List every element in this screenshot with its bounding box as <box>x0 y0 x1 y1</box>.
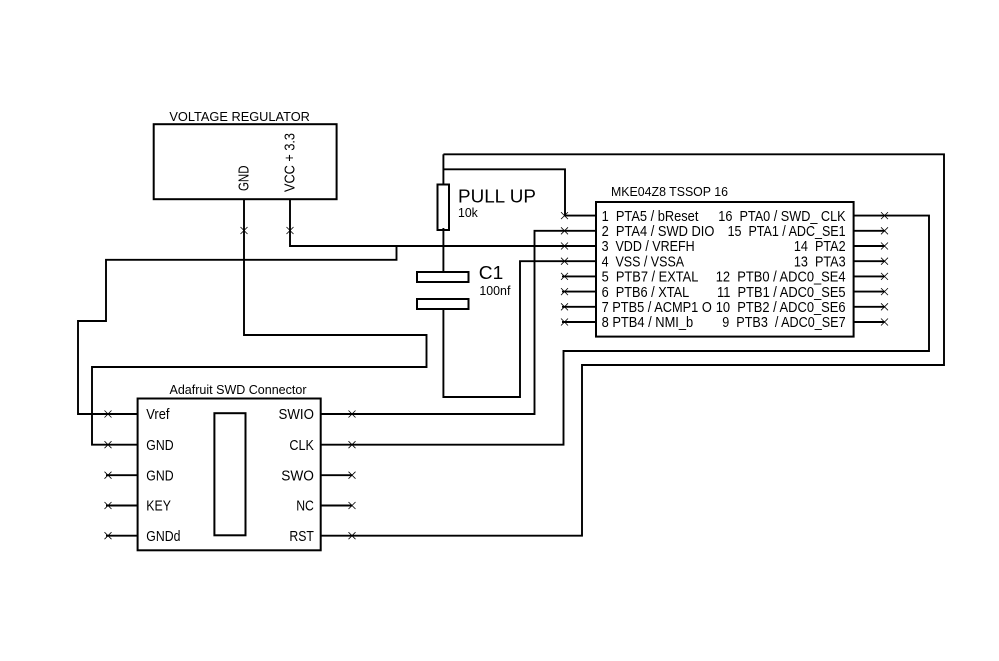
capacitor C1 top plate <box>417 272 469 282</box>
pin-end cross: MCU pin 14 <box>881 243 888 250</box>
pin-end cross: MCU pin 2 <box>561 227 568 234</box>
pin-end cross: MCU pin 4 <box>561 258 568 265</box>
svg-text:CLK: CLK <box>289 438 314 454</box>
svg-text:7 PTB5 / ACMP1 O: 7 PTB5 / ACMP1 O <box>602 300 712 316</box>
svg-text:12 PTB0 / ADC0_SE4: 12 PTB0 / ADC0_SE4 <box>716 270 846 286</box>
pin-end cross: regulator VCC <box>287 227 294 234</box>
wire: reset net, resistor top to upper rail <box>442 154 444 184</box>
pin-end cross: SWD RST <box>349 532 356 539</box>
pin-end cross: MCU pin 13 <box>881 258 888 265</box>
pin-end cross: MCU pin 3 <box>561 243 568 250</box>
wire: SWD SWO stub <box>321 474 352 476</box>
svg-text:4 VSS / VSSA: 4 VSS / VSSA <box>602 254 685 270</box>
pin-end cross: SWD GND pin 3 <box>105 472 112 479</box>
pin-end cross: MCU pin 7 <box>561 303 568 310</box>
svg-text:RST: RST <box>289 529 314 545</box>
SWD connector keying notch rectangle <box>214 413 245 535</box>
svg-text:16 PTA0 / SWD_ CLK: 16 PTA0 / SWD_ CLK <box>718 209 846 225</box>
pin-end cross: MCU pin 1 <box>561 212 568 219</box>
pin-end cross: MCU pin 5 <box>561 273 568 280</box>
wire: MCU pin 5 stub <box>562 275 596 277</box>
svg-text:5 PTB7 / EXTAL: 5 PTB7 / EXTAL <box>602 270 699 286</box>
wire: MCU pin 10 stub <box>854 306 885 308</box>
wire: MCU pin 15 stub <box>854 230 885 232</box>
wire: MCU pin 12 stub <box>854 275 885 277</box>
pin-end cross: SWD GND pin 2 <box>105 441 112 448</box>
svg-text:MKE04Z8 TSSOP 16: MKE04Z8 TSSOP 16 <box>611 184 728 199</box>
pin-end cross: MCU pin 11 <box>881 288 888 295</box>
SWD connector J1 box <box>138 399 321 551</box>
svg-text:NC: NC <box>296 499 314 515</box>
wire: MCU pin 6 stub <box>562 291 596 293</box>
wire: SWD NC stub <box>321 505 352 507</box>
svg-text:9 PTB3 / ADC0_SE7: 9 PTB3 / ADC0_SE7 <box>722 315 845 331</box>
wire: MCU pin 9 stub <box>854 321 885 323</box>
capacitor C1 bottom plate <box>417 299 469 309</box>
wire: SWD KEY stub <box>106 505 138 507</box>
MCU U2 box <box>596 202 854 337</box>
svg-text:Vref: Vref <box>146 407 170 423</box>
wire: MCU pin 14 stub <box>854 245 885 247</box>
wire: SWD GND pin 3 stub <box>106 474 138 476</box>
svg-text:SWIO: SWIO <box>279 407 314 423</box>
wire: VCC net from regulator to MCU pin 3 <box>290 199 596 246</box>
svg-text:15 PTA1 / ADC_SE1: 15 PTA1 / ADC_SE1 <box>728 224 846 240</box>
pin-end cross: MCU pin 6 <box>561 288 568 295</box>
wire: MCU pin 8 stub <box>562 321 596 323</box>
wire: MCU pin 11 stub <box>854 291 885 293</box>
svg-text:11 PTB1 / ADC0_SE5: 11 PTB1 / ADC0_SE5 <box>717 285 846 301</box>
svg-text:10k: 10k <box>458 206 479 220</box>
svg-text:14 PTA2: 14 PTA2 <box>794 239 846 255</box>
svg-text:2 PTA4 / SWD DIO: 2 PTA4 / SWD DIO <box>602 224 715 240</box>
wire: SWD GNDd stub <box>106 535 138 537</box>
svg-text:SWO: SWO <box>281 468 314 484</box>
svg-text:1 PTA5 / bReset: 1 PTA5 / bReset <box>602 209 699 225</box>
svg-text:VCC + 3.3: VCC + 3.3 <box>283 133 299 192</box>
pin-end cross: MCU pin 16 <box>881 212 888 219</box>
pin-end cross: SWD GNDd <box>105 532 112 539</box>
svg-text:C1: C1 <box>479 262 504 283</box>
svg-text:VOLTAGE REGULATOR: VOLTAGE REGULATOR <box>169 109 310 124</box>
wire: MCU pin 7 stub <box>562 306 596 308</box>
pin-end cross: regulator GND <box>241 227 248 234</box>
pin-end cross: SWD Vref <box>105 411 112 418</box>
svg-text:GND: GND <box>146 468 173 484</box>
pin-end cross: MCU pin 15 <box>881 227 888 234</box>
svg-text:3 VDD / VREFH: 3 VDD / VREFH <box>602 239 695 255</box>
wire: VSS net capacitor bottom to MCU pin 4 <box>443 261 596 397</box>
svg-text:GNDd: GNDd <box>146 529 180 545</box>
wire: VCC net branch to SWD Vref <box>78 246 397 414</box>
wire: SWCLK net SWD CLK to MCU pin 16 <box>321 216 929 445</box>
pin-end cross: MCU pin 10 <box>881 303 888 310</box>
svg-text:GND: GND <box>146 438 173 454</box>
wire: MCU pin 13 stub <box>854 260 885 262</box>
pin-end cross: SWD NC <box>349 502 356 509</box>
svg-text:6 PTB6 / XTAL: 6 PTB6 / XTAL <box>602 285 690 301</box>
pin-end cross: SWD SWIO <box>349 411 356 418</box>
svg-text:13 PTA3: 13 PTA3 <box>794 254 846 270</box>
wire: reset net branch to MCU pin 1 <box>443 169 596 215</box>
voltage regulator U1 box <box>154 124 337 199</box>
svg-text:Adafruit SWD Connector: Adafruit SWD Connector <box>170 382 308 397</box>
pin-end cross: MCU pin 8 <box>561 319 568 326</box>
svg-text:KEY: KEY <box>146 499 171 515</box>
svg-text:PULL UP: PULL UP <box>458 186 536 207</box>
wire: reset net upper rail to right side down to SWD RST <box>321 154 944 535</box>
pin-end cross: MCU pin 9 <box>881 319 888 326</box>
pin-end cross: SWD KEY <box>105 502 112 509</box>
pin-end cross: MCU pin 12 <box>881 273 888 280</box>
resistor R1 pull-up body <box>438 185 450 231</box>
svg-text:100nf: 100nf <box>479 284 511 298</box>
wire: GND net from regulator to SWD GND <box>92 199 427 445</box>
wire: SWDIO net SWD SWIO to MCU pin 2 <box>321 231 596 414</box>
svg-text:8 PTB4 / NMI_b: 8 PTB4 / NMI_b <box>602 315 694 331</box>
pin-end cross: SWD CLK <box>349 441 356 448</box>
svg-text:GND: GND <box>237 166 253 192</box>
pin-end cross: SWD SWO <box>349 472 356 479</box>
wire: VCC segment resistor bottom to capacitor top <box>442 228 444 272</box>
svg-text:10 PTB2 / ADC0_SE6: 10 PTB2 / ADC0_SE6 <box>716 300 846 316</box>
